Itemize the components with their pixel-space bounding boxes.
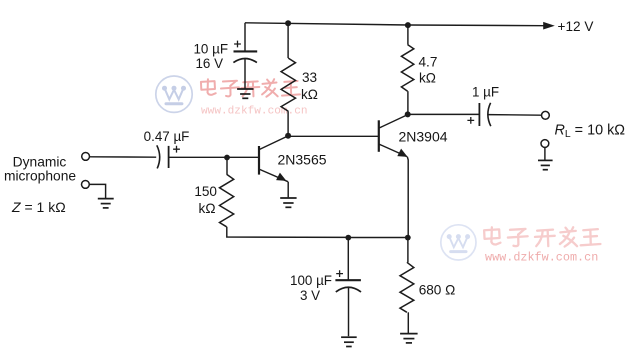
wire: C2 to ground bbox=[244, 59, 246, 89]
node: rail junction at R3 4.7k bbox=[405, 22, 411, 28]
svg-text:2N3565: 2N3565 bbox=[278, 151, 327, 167]
svg-text:10 µF: 10 µF bbox=[193, 41, 228, 56]
wire: feedback node down to C4 bbox=[347, 238, 349, 280]
resistor R3 4.7 kOhm bbox=[401, 45, 413, 92]
wire: R3 to Q2 collector node bbox=[407, 91, 409, 114]
svg-text:RL = 10 kΩ: RL = 10 kΩ bbox=[555, 123, 626, 141]
Q1 label 2N3565 bbox=[278, 151, 327, 167]
input terminal (mic +) bbox=[82, 153, 90, 161]
R4 value label 680 Ohm bbox=[419, 282, 456, 297]
ground: output bbox=[538, 160, 553, 169]
node: Q1 base junction bbox=[224, 155, 230, 161]
label Dynamic microphone bbox=[4, 155, 76, 184]
capacitor C3 0.47 uF bbox=[157, 145, 180, 168]
wire: collector node to C5 bbox=[408, 113, 479, 115]
wire: R1 to Q1 collector node bbox=[287, 111, 289, 136]
output terminal RL (bottom) bbox=[541, 140, 549, 148]
watermark text dzkfw (lower) bbox=[484, 227, 600, 264]
watermark W logo (lower) bbox=[441, 225, 476, 260]
wire: base node to R2 bbox=[226, 158, 228, 175]
node: Q1 collector junction bbox=[285, 133, 291, 139]
svg-text:2N3904: 2N3904 bbox=[399, 128, 448, 144]
label RL = 10 kOhm bbox=[555, 123, 626, 141]
node: Q2 emitter junction bbox=[405, 235, 411, 241]
svg-text:kΩ: kΩ bbox=[301, 87, 318, 102]
svg-text:0.47 µF: 0.47 µF bbox=[144, 129, 190, 144]
wire: C4 to ground bbox=[348, 287, 350, 336]
svg-text:+12 V: +12 V bbox=[558, 19, 594, 34]
C4 value label 100 uF / 3 V bbox=[290, 273, 332, 303]
resistor R4 680 Ohm bbox=[400, 262, 414, 312]
svg-text:www.dzkfw.com.cn: www.dzkfw.com.cn bbox=[485, 250, 598, 264]
capacitor C2 10 uF bbox=[233, 41, 257, 63]
wire: R4 to ground bbox=[407, 312, 409, 333]
ground: below R4 bbox=[400, 334, 418, 343]
wire: rail corner down to C2 10uF bbox=[244, 23, 246, 51]
wire: mic to C3 bbox=[90, 156, 157, 158]
input terminal (mic ground) bbox=[82, 181, 90, 189]
transistor Q2 2N3904 bbox=[379, 115, 408, 157]
svg-text:33: 33 bbox=[302, 70, 317, 85]
ground: Q1 emitter bbox=[280, 198, 296, 207]
svg-text:kΩ: kΩ bbox=[199, 201, 216, 216]
wire: Q1 emitter to ground bbox=[287, 182, 289, 198]
transistor Q1 2N3565 bbox=[259, 136, 288, 182]
node: feedback / C4 junction bbox=[345, 235, 351, 241]
Q2 label 2N3904 bbox=[399, 128, 448, 144]
wire: R2 to feedback node bbox=[227, 227, 348, 238]
C2 value label 10 uF / 16 V bbox=[193, 41, 228, 70]
svg-text:16 V: 16 V bbox=[195, 56, 223, 71]
C5 value label 1 uF bbox=[472, 84, 499, 99]
wire: emitter node to R4 bbox=[407, 238, 409, 263]
watermark text dzkfw (upper) bbox=[201, 79, 308, 117]
label +12 V bbox=[558, 19, 594, 34]
svg-text:680 Ω: 680 Ω bbox=[419, 282, 456, 297]
wire: rail to R3 bbox=[407, 25, 409, 44]
wire: Q1 collector node to Q2 base bbox=[288, 135, 379, 137]
ground: microphone bbox=[98, 199, 114, 208]
wire: +12V supply rail bbox=[245, 22, 555, 30]
wire: Q2 emitter to emitter node bbox=[406, 157, 409, 238]
resistor R1 33 kOhm bbox=[281, 58, 295, 111]
svg-text:100 µF: 100 µF bbox=[290, 273, 332, 288]
svg-text:150: 150 bbox=[194, 184, 217, 199]
label Z = 1 kOhm bbox=[11, 199, 66, 215]
wire: feedback node to emitter node bbox=[348, 237, 408, 239]
node: Q2 collector junction bbox=[405, 111, 411, 117]
svg-text:Z = 1 kΩ: Z = 1 kΩ bbox=[11, 199, 66, 215]
C3 value label 0.47 uF bbox=[144, 129, 190, 144]
svg-text:kΩ: kΩ bbox=[419, 70, 436, 85]
R2 value label 150 kOhm bbox=[194, 184, 217, 216]
svg-text:microphone: microphone bbox=[4, 168, 76, 183]
wire: C5 to output terminal bbox=[488, 114, 541, 117]
capacitor C5 1 uF bbox=[467, 103, 490, 126]
ground: below C4 bbox=[341, 337, 357, 346]
ground: below C2 bbox=[237, 89, 253, 98]
capacitor C4 100 uF bbox=[335, 270, 361, 292]
svg-text:www.dzkfw.com.cn: www.dzkfw.com.cn bbox=[201, 106, 308, 118]
wire: rail to R1 bbox=[287, 23, 289, 58]
output terminal RL (top) bbox=[542, 111, 550, 119]
R3 value label 4.7 kOhm bbox=[419, 55, 438, 86]
wire: C3 to Q1 base bbox=[169, 156, 259, 158]
svg-text:3 V: 3 V bbox=[300, 288, 320, 303]
svg-text:1 µF: 1 µF bbox=[472, 84, 499, 99]
R1 value label 33 kOhm bbox=[301, 70, 318, 102]
node: rail junction at R1 33k bbox=[285, 20, 291, 26]
watermark W logo (upper) bbox=[156, 76, 192, 112]
svg-text:4.7: 4.7 bbox=[419, 55, 438, 70]
resistor R2 150 kOhm bbox=[220, 174, 234, 227]
wire: output terminal to ground bbox=[544, 147, 546, 160]
wire: mic terminal 2 to ground bbox=[89, 184, 105, 198]
